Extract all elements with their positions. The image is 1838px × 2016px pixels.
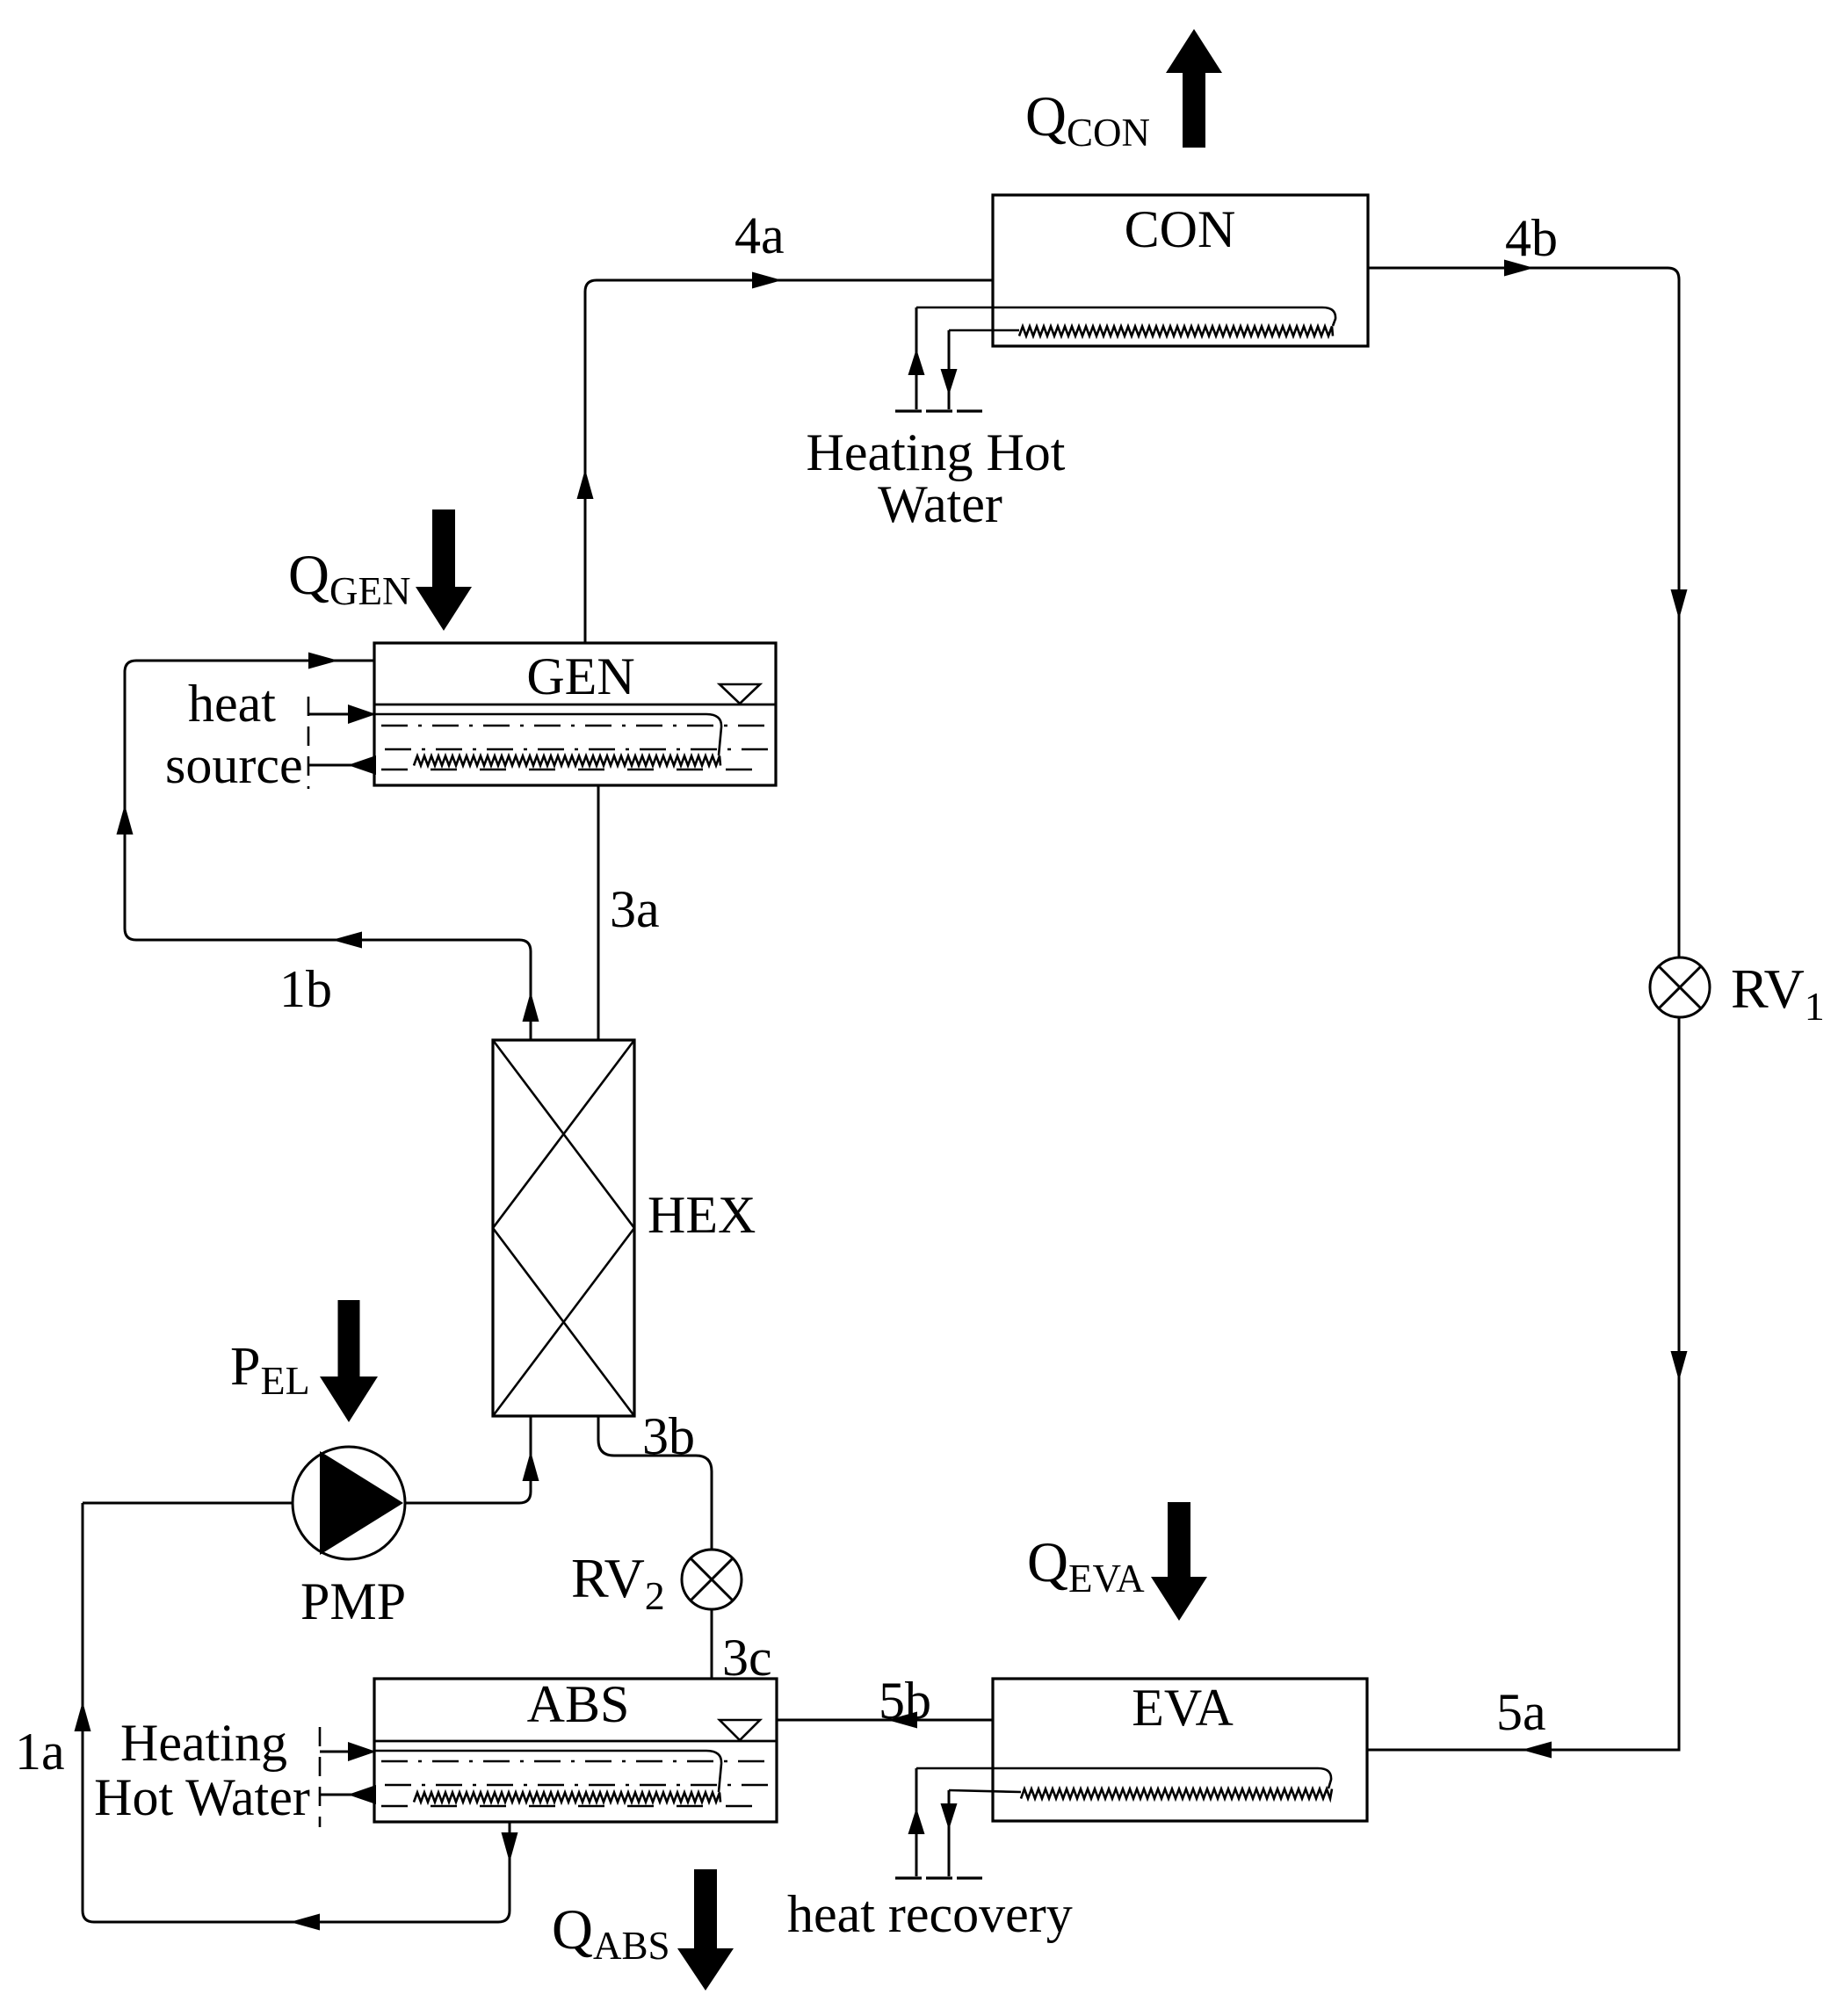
svg-text:3c: 3c [722, 1629, 772, 1687]
svg-text:QCON: QCON [1025, 85, 1150, 155]
valve RV2 [682, 1550, 742, 1609]
wire 5b : EVA to ABS [777, 1712, 993, 1729]
svg-text:Hot Water: Hot Water [94, 1768, 310, 1826]
svg-text:1b: 1b [279, 960, 332, 1018]
wire : ABS loop to pump inlet [83, 1502, 293, 1505]
absorber ABS box [374, 1679, 777, 1822]
label Q_GEN [288, 544, 410, 613]
ABS liquid surface line [374, 1740, 777, 1743]
svg-text:RV2: RV2 [571, 1547, 665, 1618]
node 1a label [15, 1723, 65, 1781]
generator GEN box [374, 643, 776, 785]
svg-text:Heating: Heating [120, 1714, 287, 1772]
svg-text:QABS: QABS [552, 1898, 670, 1968]
Q_CON heat arrow (up) [1166, 29, 1222, 148]
wire 5a : RV1 to EVA [1367, 1017, 1688, 1759]
svg-text:QEVA: QEVA [1027, 1531, 1145, 1601]
node 1b label [279, 960, 332, 1018]
ABS liquid dash-dot rows [381, 1761, 770, 1806]
svg-text:5a: 5a [1496, 1683, 1546, 1741]
svg-text:4b: 4b [1505, 209, 1558, 267]
label Q_CON [1025, 85, 1150, 155]
CON water return pipe [941, 330, 958, 409]
ground: heat recovery (EVA) [895, 1876, 982, 1879]
svg-text:1a: 1a [15, 1723, 65, 1781]
wire 3b : HEX bottom-right to RV2 [598, 1416, 712, 1550]
label ABS [527, 1675, 630, 1733]
Q_GEN heat arrow (down) [416, 509, 472, 631]
GEN liquid surface line [374, 704, 776, 706]
node 3c label [722, 1629, 772, 1687]
wire 3c : RV2 to ABS top [711, 1609, 713, 1679]
svg-text:heat: heat [188, 675, 276, 733]
EVA water supply pipe [908, 1768, 925, 1876]
Q_EVA heat arrow (down) [1151, 1502, 1207, 1621]
label HEX [648, 1186, 756, 1244]
GEN heat source outlet arrow [308, 755, 376, 775]
CON coil tube [916, 307, 1335, 336]
ABS heating water inlet arrow [320, 1742, 376, 1761]
evaporator EVA box [993, 1679, 1367, 1821]
wire 1b : HEX top-left to GEN via loop [117, 653, 539, 1041]
ABS heating water dashed header [319, 1727, 322, 1827]
CON water supply pipe [908, 307, 925, 409]
ABS heating water outlet arrow [320, 1785, 376, 1804]
ABS coil tube [374, 1751, 721, 1803]
node 3b label [642, 1407, 695, 1465]
svg-text:PMP: PMP [300, 1572, 406, 1630]
node 5b label [879, 1672, 931, 1730]
GEN coil tube [374, 714, 721, 766]
label RV1 [1731, 957, 1825, 1029]
wire 1a : ABS bottom to pump [75, 1503, 518, 1931]
label GEN [526, 647, 634, 705]
label Heating Hot Water (ABS) [94, 1714, 310, 1826]
node 4b label [1505, 209, 1558, 267]
label heat recovery [787, 1885, 1073, 1943]
heat exchanger HEX box [493, 1040, 634, 1416]
GEN heat source dashed header [308, 697, 310, 789]
label P_EL [230, 1337, 310, 1403]
label Heating Hot Water (CON) [807, 423, 1066, 533]
svg-text:4a: 4a [734, 206, 785, 264]
svg-text:3b: 3b [642, 1407, 695, 1465]
GEN level indicator triangle [720, 684, 760, 704]
EVA water return pipe [941, 1790, 958, 1876]
condenser CON box [993, 195, 1368, 346]
svg-text:CON: CON [1125, 200, 1236, 258]
label heat source [165, 675, 303, 794]
wire 3a : GEN bottom to HEX top-right [597, 785, 600, 1040]
svg-text:3a: 3a [610, 880, 660, 938]
EVA coil tube [916, 1768, 1332, 1799]
wire 4b : CON right to RV1 [1368, 260, 1688, 958]
GEN liquid dash-dot rows [381, 726, 769, 770]
svg-text:5b: 5b [879, 1672, 931, 1730]
svg-text:EVA: EVA [1132, 1679, 1234, 1737]
svg-text:source: source [165, 736, 303, 794]
svg-text:Water: Water [878, 475, 1002, 533]
Q_ABS heat arrow (down) [677, 1869, 734, 1991]
ABS level indicator triangle [720, 1720, 760, 1740]
node 3a label [610, 880, 660, 938]
svg-text:HEX: HEX [648, 1186, 756, 1244]
svg-text:heat recovery: heat recovery [787, 1885, 1073, 1943]
pump PMP [293, 1447, 405, 1559]
wire 4a : GEN top to CON left [577, 272, 994, 644]
node 5a label [1496, 1683, 1546, 1741]
svg-text:GEN: GEN [526, 647, 634, 705]
svg-text:ABS: ABS [527, 1675, 630, 1733]
svg-text:RV1: RV1 [1731, 957, 1825, 1029]
node 4a label [734, 206, 785, 264]
svg-text:QGEN: QGEN [288, 544, 410, 613]
label RV2 [571, 1547, 665, 1618]
ground: heating hot water (CON) [895, 409, 982, 412]
valve RV1 [1650, 957, 1710, 1017]
svg-text:PEL: PEL [230, 1337, 310, 1403]
label PMP [300, 1572, 406, 1630]
P_EL power arrow (down) [320, 1300, 378, 1422]
svg-text:Heating Hot: Heating Hot [807, 423, 1066, 481]
label Q_ABS [552, 1898, 670, 1968]
label CON [1125, 200, 1236, 258]
label Q_EVA [1027, 1531, 1145, 1601]
label EVA [1132, 1679, 1234, 1737]
wire : pump outlet to HEX bottom-left [405, 1416, 539, 1503]
GEN heat source inlet arrow [308, 705, 376, 724]
